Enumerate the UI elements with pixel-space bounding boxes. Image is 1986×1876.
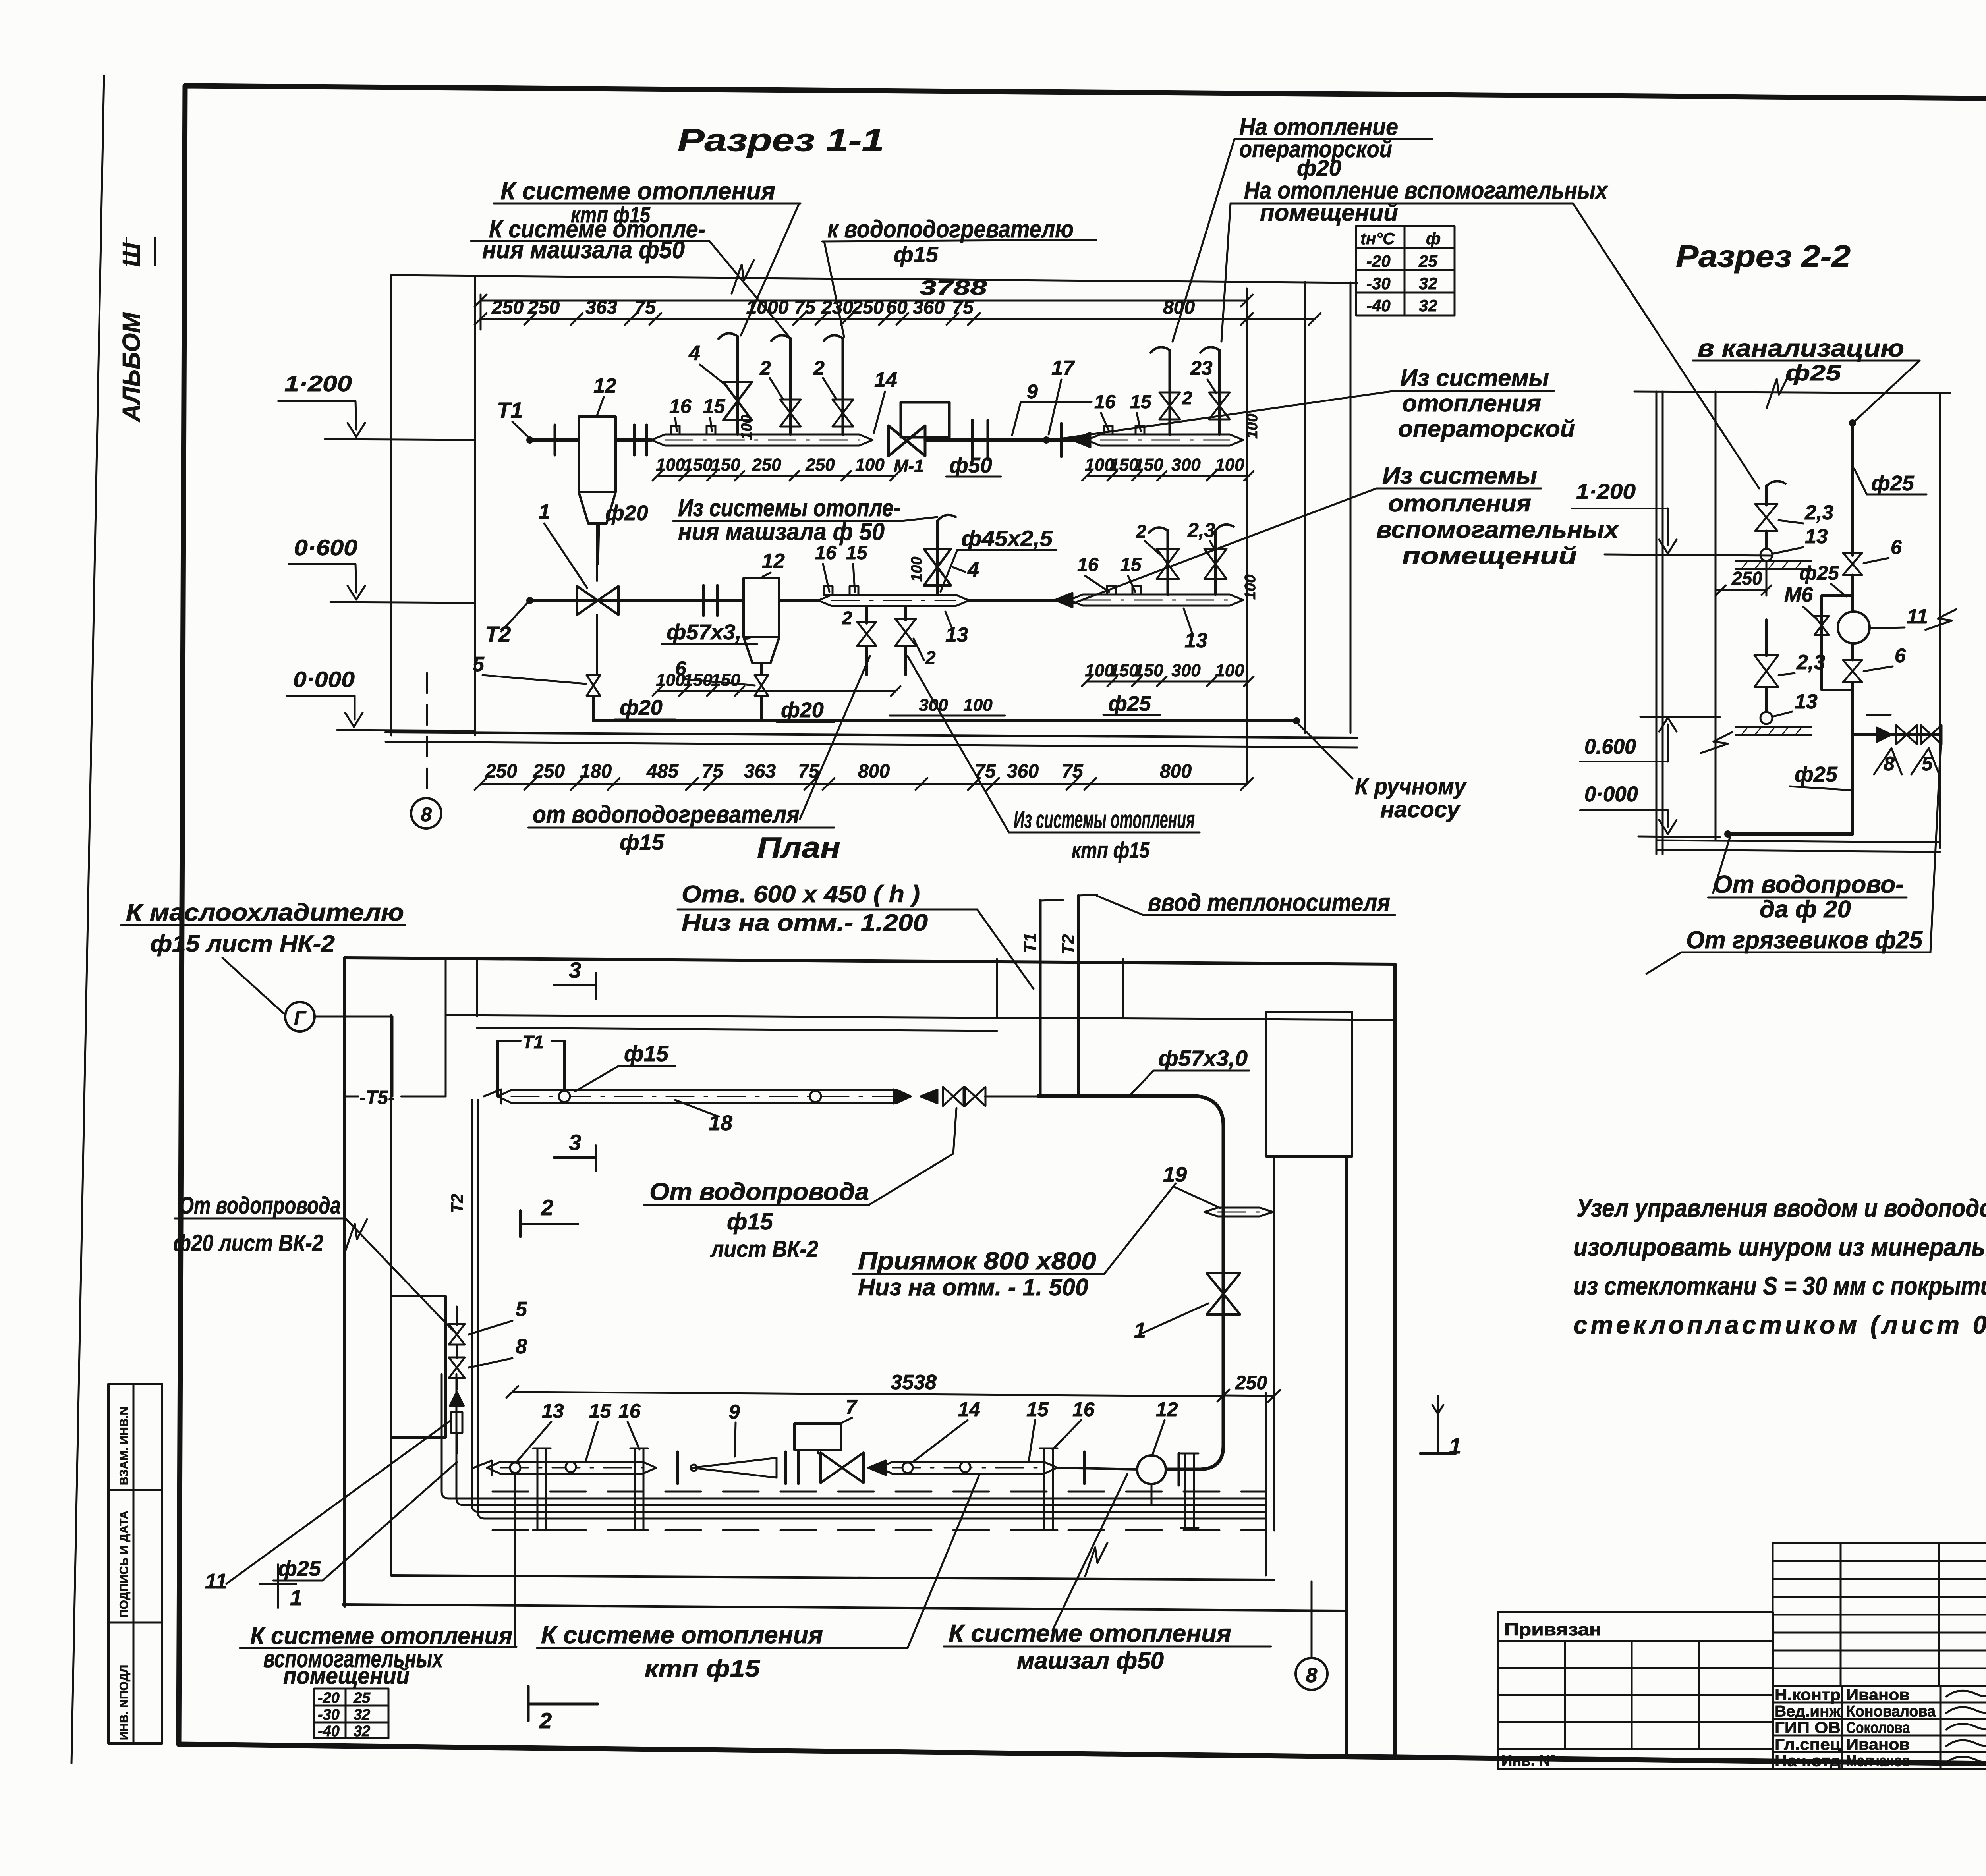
svg-text:1: 1 [1134,1318,1146,1342]
svg-text:2,3: 2,3 [1804,501,1833,524]
svg-text:250: 250 [752,455,781,475]
svg-text:6: 6 [1891,536,1902,558]
valve 2 on riser 2 [780,400,801,427]
svg-text:ф25: ф25 [1108,692,1151,716]
svg-text:ф57х3,0: ф57х3,0 [667,620,754,644]
leader wire [1713,836,1730,893]
svg-text:ИНВ. NПОДЛ: ИНВ. NПОДЛ [118,1665,131,1740]
svg-text:стеклопластиком (лист 08Н6 ): стеклопластиком (лист 08Н6 ) [1573,1310,1986,1339]
left riser stack with valves [391,1296,446,1438]
dimension extension line right [1246,288,1248,784]
svg-text:-20: -20 [1366,252,1391,270]
svg-text:К ручному: К ручному [1355,774,1467,799]
svg-text:от водоподогревателя: от водоподогревателя [533,801,800,828]
svg-text:Н.контр: Н.контр [1775,1686,1841,1704]
svg-text:ф20 лист ВК-2: ф20 лист ВК-2 [173,1230,323,1256]
svg-text:Низ на отм.- 1.200: Низ на отм.- 1.200 [682,909,928,936]
svg-text:К системе отопления: К системе отопления [949,1620,1231,1647]
svg-text:150: 150 [683,455,713,475]
svg-text:8: 8 [516,1335,527,1358]
svg-text:ПОДПИСЬ И ДАТА: ПОДПИСЬ И ДАТА [118,1511,131,1618]
riser ф45 with valve 4 [936,521,939,595]
svg-text:75: 75 [794,297,816,318]
svg-text:16: 16 [815,542,837,564]
dim row under T2 left [657,690,896,692]
drain valve 5 [587,675,600,696]
pump 12 on manifold [1083,1452,1086,1484]
section mark 2 lower [527,1686,530,1721]
svg-text:Нач.отд: Нач.отд [1775,1752,1841,1770]
svg-text:150: 150 [711,455,740,475]
svg-text:150: 150 [1134,455,1163,475]
svg-text:250: 250 [1235,1372,1267,1393]
svg-text:отопления: отопления [1388,490,1531,517]
svg-text:Из системы отопле-: Из системы отопле- [678,494,900,522]
leader wire [1854,361,1920,422]
leader wire [908,656,1009,832]
svg-text:-40: -40 [1366,296,1391,315]
dirt trap 12 (on T1) [579,417,616,492]
svg-text:2: 2 [759,357,771,379]
section 1-1 room top line [391,275,1357,283]
svg-text:12: 12 [1156,1398,1178,1421]
svg-text:Низ на отм. - 1. 500: Низ на отм. - 1. 500 [858,1274,1088,1301]
svg-text:Т1: Т1 [522,1032,544,1052]
svg-text:2: 2 [842,608,852,628]
svg-text:8: 8 [421,803,432,826]
svg-text:к водоподогревателю: к водоподогревателю [827,216,1074,243]
svg-text:14: 14 [958,1398,980,1421]
svg-text:17: 17 [1051,357,1075,380]
valves 2,2 under T2 lens [865,606,868,623]
leader wire [346,1218,453,1330]
svg-text:12: 12 [593,374,616,398]
leader wire [741,203,799,336]
svg-text:250: 250 [491,297,524,318]
svg-text:ф15: ф15 [624,1041,669,1066]
stem below valve 1 [596,615,598,675]
bypass loop with pump 11 [1851,575,1854,596]
svg-text:100: 100 [1215,661,1244,680]
T2 drop pipes on plan left [471,1100,473,1505]
svg-text:От водопровода: От водопровода [179,1192,341,1219]
svg-text:лист ВК-2: лист ВК-2 [710,1236,818,1262]
svg-text:75: 75 [634,297,656,318]
svg-text:Г: Г [294,1008,307,1029]
svg-text:16: 16 [1094,392,1116,413]
svg-text:ф: ф [1426,229,1441,248]
svg-text:75: 75 [952,297,974,318]
svg-text:Из системы: Из системы [1400,365,1549,391]
svg-text:180: 180 [580,761,612,782]
svg-text:0.600: 0.600 [1584,735,1636,759]
svg-text:К маслоохладителю: К маслоохладителю [126,899,404,926]
svg-text:1·200: 1·200 [284,371,352,396]
valve 4 (big, on riser) [723,382,752,420]
pipe bundle bends to manifold [442,1374,1266,1498]
section 1-1 left wall [390,275,392,735]
pipe ф25 riser [1849,419,1856,427]
valve 2,3 upper [1755,504,1777,531]
svg-text:ф15: ф15 [894,242,939,267]
svg-text:3538: 3538 [891,1371,937,1394]
svg-text:15: 15 [1120,554,1142,575]
valve 7 with actuator [794,1424,841,1450]
svg-text:Из системы отопления: Из системы отопления [1014,806,1195,834]
canalization riser with funnel [1766,481,1785,486]
floor slab lower [1736,726,1811,728]
plan right wall [1393,964,1397,1757]
section 2-2 right boundary [1939,393,1941,848]
svg-text:От водопрово-: От водопрово- [1713,871,1904,898]
svg-text:250: 250 [1731,568,1762,589]
title block names grid [1773,1685,1986,1687]
svg-text:ф45х2,5: ф45х2,5 [961,526,1053,551]
svg-text:15: 15 [703,395,726,417]
svg-text:-40: -40 [318,1723,340,1740]
svg-text:-30: -30 [1366,274,1391,293]
svg-text:ГИП ОВ: ГИП ОВ [1775,1719,1841,1737]
svg-text:ктп ф15: ктп ф15 [645,1655,761,1682]
svg-text:2: 2 [925,647,936,668]
svg-text:Т1: Т1 [497,398,523,423]
svg-text:в канализацию: в канализацию [1698,335,1904,362]
svg-text:ф50: ф50 [949,454,992,477]
pipe down to floor [1851,682,1854,834]
dirt trap 12b [744,578,779,637]
svg-text:25: 25 [1418,252,1437,270]
svg-text:100: 100 [1215,455,1244,475]
title block small grid [1773,1542,1986,1544]
svg-text:4: 4 [688,342,700,365]
svg-text:100: 100 [738,415,755,440]
svg-text:2: 2 [541,1195,553,1220]
check+valves at T1 end [921,1090,937,1103]
section 1-1 floor [386,732,1357,738]
svg-text:300: 300 [919,695,948,715]
svg-text:Ш: Ш [118,242,145,267]
drain circle 13 lower [1760,712,1772,724]
svg-text:1·200: 1·200 [1576,480,1636,504]
dim row under T2 right [1087,681,1249,683]
svg-text:изолировать шнуром из минер: изолировать шнуром из минеральной ваты в… [1573,1233,1986,1261]
svg-text:16: 16 [669,395,692,417]
pipe T1 right [925,438,1087,442]
insulated pipe T1 plan [484,1089,501,1104]
svg-text:ВЗАМ. ИНВ.N: ВЗАМ. ИНВ.N [118,1407,131,1485]
leader wire [977,909,1034,989]
svg-text:2: 2 [1136,521,1146,542]
svg-text:13: 13 [542,1400,564,1422]
riser to heating KTP [736,336,739,434]
svg-text:Соколова: Соколова [1846,1719,1910,1737]
section mark 1 right [1437,1396,1439,1453]
drain valve 6b [755,675,768,696]
svg-text:4: 4 [967,558,979,581]
svg-text:2: 2 [1182,388,1192,408]
leader wire [514,1473,516,1647]
svg-text:ктп ф15: ктп ф15 [1072,838,1150,863]
leader wire [1053,1474,1127,1630]
svg-text:250: 250 [852,297,884,318]
svg-text:Иванов: Иванов [1846,1736,1910,1753]
svg-text:ф20: ф20 [605,501,648,525]
valve 1 on T2 [577,586,618,615]
svg-text:ф25: ф25 [1871,471,1915,495]
flange pair on T2 [702,585,705,616]
svg-text:Приямок 800 х800: Приямок 800 х800 [858,1247,1096,1275]
svg-text:485: 485 [646,761,679,782]
svg-text:16: 16 [618,1400,641,1422]
svg-text:13: 13 [1184,629,1207,652]
svg-text:да ф 20: да ф 20 [1760,896,1851,923]
plan top wall [345,958,1395,964]
svg-text:250: 250 [805,455,835,475]
break mark near label [1085,1543,1107,1576]
svg-text:23: 23 [1190,357,1213,379]
svg-text:14: 14 [874,369,897,392]
svg-text:Т2: Т2 [448,1194,466,1213]
svg-text:помещений: помещений [283,1663,410,1689]
bottom dimension row [481,783,1247,785]
axis circle 8 (plan) [1296,1658,1327,1690]
svg-text:машзал ф50: машзал ф50 [1017,1647,1164,1674]
plan bottom wall band [391,1575,1274,1580]
svg-text:АЛЬБОМ: АЛЬБОМ [118,312,145,423]
svg-text:tн°C: tн°C [1360,229,1395,248]
pipe T1 loop in plan [496,1041,499,1096]
section 2-2 left wall [1656,392,1658,854]
svg-text:75: 75 [702,761,724,782]
svg-text:150: 150 [711,670,740,690]
svg-text:ф20: ф20 [781,698,824,722]
svg-text:5: 5 [516,1298,527,1321]
insulated pipe on T2 [818,595,969,606]
svg-text:9: 9 [1027,380,1038,403]
riser 3 [842,338,844,434]
svg-text:11: 11 [1907,605,1928,628]
svg-text:100: 100 [656,670,685,690]
svg-text:363: 363 [744,761,776,782]
svg-text:13: 13 [1805,525,1828,548]
svg-text:250: 250 [533,761,565,782]
svg-text:6: 6 [1895,645,1906,667]
svg-text:отопления: отопления [1402,390,1541,417]
section 2-2 top line [1634,392,1950,393]
svg-text:0·000: 0·000 [1584,782,1638,806]
svg-text:насосу: насосу [1380,797,1461,822]
privyazan block [1498,1612,1773,1769]
svg-text:15: 15 [846,542,868,564]
svg-text:12: 12 [762,550,785,573]
svg-text:От грязевиков ф25: От грязевиков ф25 [1686,926,1923,954]
leader wire [1052,391,1395,440]
dimension row top sub [481,318,1315,320]
svg-text:32: 32 [1419,274,1437,293]
svg-text:Коновалова: Коновалова [1846,1703,1936,1720]
manifold insulated pipe left [473,1461,492,1475]
T1 T2 risers from top [1039,901,1042,1096]
valve 2 on riser 3 [833,400,853,427]
valve 2,3 lower [1765,620,1768,656]
floor slab upper [1736,560,1811,562]
svg-text:ф15 лист НК-2: ф15 лист НК-2 [150,931,335,957]
svg-text:32: 32 [354,1723,370,1740]
svg-text:800: 800 [1163,297,1195,318]
svg-text:250: 250 [527,297,560,318]
valve M6 on bypass [1814,616,1829,635]
svg-text:помещений: помещений [1402,542,1577,569]
svg-text:Отв. 600 х 450 ( h ): Отв. 600 х 450 ( h ) [682,881,920,907]
svg-text:15: 15 [1026,1398,1049,1421]
dim 250 right [1223,1395,1274,1396]
paper edge line (left) [71,75,104,1763]
valve 6 lower [1851,643,1854,660]
svg-text:Привязан: Привязан [1504,1620,1602,1639]
svg-text:ф20: ф20 [620,696,663,720]
svg-text:60: 60 [886,297,908,318]
svg-text:ф15: ф15 [620,830,665,855]
svg-text:150: 150 [683,670,713,690]
svg-text:363: 363 [585,297,617,318]
svg-text:из стеклоткани S = 30 мм с: из стеклоткани S = 30 мм с покрытием рул… [1573,1272,1986,1300]
branch to hand pump with check valve 8 and valve 5 [1853,733,1940,736]
svg-text:15: 15 [589,1400,612,1422]
leader wire [709,241,790,338]
leader wire [902,517,937,521]
svg-text:0·000: 0·000 [293,667,355,692]
leader wire [908,1475,979,1648]
channel dashed edges [493,1491,1266,1493]
svg-text:15: 15 [1130,392,1152,413]
svg-text:ф25: ф25 [1799,562,1839,584]
svg-text:ф25: ф25 [1795,762,1838,786]
svg-text:ввод теплоносителя: ввод теплоносителя [1148,889,1390,917]
pipe size table [1356,226,1455,315]
leader wire [1173,139,1234,342]
insulated pipe on T1 [651,434,873,446]
svg-text:11: 11 [205,1569,227,1593]
svg-text:9: 9 [729,1401,740,1423]
svg-text:ф57х3,0: ф57х3,0 [1158,1046,1248,1071]
svg-text:100: 100 [963,695,993,715]
section mark 3 lower [554,1156,596,1159]
svg-text:К системе отопления: К системе отопления [541,1621,823,1649]
svg-text:250: 250 [485,761,517,782]
svg-text:Гл.спец: Гл.спец [1775,1736,1841,1753]
valve 6 upper [1843,553,1862,575]
risers right T2 [1167,531,1169,594]
leader wire [824,241,844,337]
niche verticals [1265,1393,1267,1575]
T5 connection line [315,1016,392,1018]
svg-text:100: 100 [1242,575,1259,600]
reducer item 9 [692,1458,777,1478]
pilaster [1266,1012,1352,1156]
riser operator room 1 [1169,350,1171,434]
pump 11 [1851,596,1854,612]
svg-text:32: 32 [354,1706,370,1723]
svg-text:300: 300 [1171,661,1201,680]
svg-text:-Т5-: -Т5- [359,1087,394,1108]
flange on manifold [676,1452,679,1484]
svg-text:7: 7 [846,1396,858,1418]
svg-text:0·600: 0·600 [294,535,357,560]
svg-text:операторской: операторской [1398,415,1575,442]
leader wire [1104,1183,1176,1274]
svg-text:ф15: ф15 [727,1209,773,1235]
section 1-1 right wall [1304,282,1306,733]
insulated pipe T2 right [1055,593,1072,607]
svg-text:25: 25 [353,1690,371,1706]
svg-text:Т2: Т2 [1059,934,1078,955]
valve M-1 with actuator [901,402,949,437]
svg-text:3: 3 [569,957,581,982]
plan top wall inner pipe line [477,1028,997,1031]
svg-text:75: 75 [1062,761,1084,782]
pipe T1 mid [616,438,651,442]
svg-text:К системе отопления: К системе отопления [500,178,775,205]
svg-text:Разрез 1-1: Разрез 1-1 [678,122,884,158]
plan left wall [343,958,346,1606]
svg-text:Иванов: Иванов [1846,1686,1910,1704]
leader wire [869,1154,953,1205]
svg-text:Молчанов: Молчанов [1846,1752,1910,1770]
section 2-2 floor [1656,840,1940,842]
svg-text:13: 13 [945,623,968,647]
svg-text:ф20: ф20 [1297,155,1341,180]
svg-text:32: 32 [1419,296,1437,315]
svg-text:3: 3 [569,1130,581,1155]
svg-text:8: 8 [1306,1664,1318,1687]
section mark 3 upper [554,984,596,986]
pipe T2 tail [969,599,1064,602]
pipe ф57 ввод run [1038,1094,1196,1098]
svg-text:Инв. N°: Инв. N° [1501,1752,1556,1769]
insulated pipe on T1 right [1072,433,1090,447]
svg-text:вспомогательных: вспомогательных [1376,516,1620,543]
svg-text:М6: М6 [1784,583,1813,606]
svg-text:360: 360 [913,297,945,318]
svg-text:1: 1 [290,1585,302,1610]
section mark 1 left [277,1565,279,1608]
svg-text:2,3: 2,3 [1187,519,1215,541]
svg-text:300: 300 [1171,455,1201,475]
drain circle 13 upper [1760,549,1772,561]
leader wire [1072,488,1376,604]
manifold supports [537,1448,539,1530]
svg-text:2: 2 [539,1708,552,1733]
svg-text:План: План [757,831,840,864]
svg-text:-20: -20 [318,1690,340,1706]
svg-text:100: 100 [908,557,925,582]
dim 250 [1716,589,1766,591]
dim 3538 [512,1392,1223,1396]
dimension row 3788 [481,300,1247,302]
manifold insulated pipe right [868,1461,886,1475]
svg-text:ния машзала ф 50: ния машзала ф 50 [678,518,885,546]
svg-text:От водопровода: От водопровода [649,1178,869,1206]
svg-text:ф25: ф25 [278,1557,321,1581]
dim row under T1 right [1087,475,1249,477]
axis 8 dashed line [426,673,428,797]
svg-text:Из системы: Из системы [1382,462,1537,489]
bottom pipe ф25 run [593,719,1296,722]
svg-text:Т1: Т1 [1020,933,1040,953]
svg-text:13: 13 [1795,690,1818,713]
axis circle 8 [411,798,441,828]
svg-text:ф25: ф25 [1785,360,1841,385]
